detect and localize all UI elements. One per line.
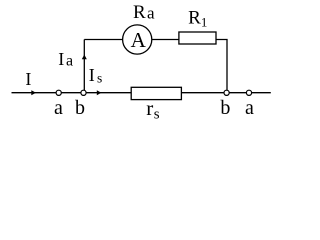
svg-text:A: A: [131, 28, 147, 52]
resistor rs body (shunt): [131, 87, 181, 99]
node a (right terminal): [246, 90, 251, 95]
ammeter A (meter body): [123, 25, 152, 54]
svg-text:b: b: [75, 97, 85, 119]
svg-text:r: r: [146, 96, 153, 120]
arrow: current I direction on left wire: [31, 90, 36, 95]
svg-text:I: I: [25, 69, 31, 89]
svg-text:a: a: [54, 97, 63, 119]
wire: vertical branch from node b up to ammeter branch: [83, 40, 85, 93]
svg-text:R: R: [188, 7, 201, 28]
node b (right junction): [224, 90, 229, 95]
arrow: current Is direction right of node b: [97, 90, 102, 95]
svg-text:s: s: [97, 70, 102, 85]
svg-text:a: a: [245, 97, 254, 119]
svg-text:R: R: [133, 2, 146, 23]
wire: bottom main wire right segment: [182, 92, 271, 94]
node a (left terminal): [56, 90, 61, 95]
svg-text:a: a: [66, 53, 73, 70]
node b (left junction): [81, 90, 86, 95]
wire: bottom main wire left segment: [12, 92, 132, 94]
arrow: current Ia direction on vertical branch (up): [82, 55, 87, 60]
svg-text:s: s: [154, 106, 160, 122]
svg-text:I: I: [58, 49, 64, 69]
svg-text:b: b: [220, 97, 230, 119]
resistor R1 body: [179, 32, 216, 44]
wire: resistor R1 to right corner and down to node b: [217, 40, 228, 93]
svg-text:a: a: [147, 4, 155, 23]
wire: ammeter to resistor R1: [152, 39, 179, 41]
svg-text:1: 1: [201, 14, 208, 29]
wire: top branch from corner to ammeter: [84, 39, 122, 41]
svg-text:I: I: [89, 65, 95, 85]
